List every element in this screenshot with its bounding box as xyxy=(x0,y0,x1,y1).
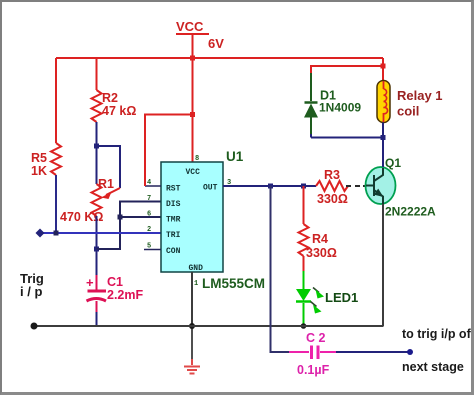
svg-text:coil: coil xyxy=(397,104,419,119)
diode D1 xyxy=(304,89,361,118)
svg-text:Q1: Q1 xyxy=(385,156,401,170)
resistor R3 xyxy=(316,168,348,206)
svg-text:R4: R4 xyxy=(312,232,328,246)
node OUT/C2 junction xyxy=(268,184,273,189)
wire R4 to LED xyxy=(303,256,305,289)
svg-text:U1: U1 xyxy=(226,149,244,164)
LED LED1 xyxy=(296,288,358,314)
transistor Q1 xyxy=(366,156,437,219)
relay coil RL1 xyxy=(377,81,443,123)
wire D1 top branch xyxy=(311,66,383,73)
wire RST to VCC xyxy=(145,115,193,187)
wire TMR branch xyxy=(120,216,161,218)
node relay/D1 top junction xyxy=(381,64,386,69)
svg-text:330Ω: 330Ω xyxy=(306,246,337,260)
svg-text:GND: GND xyxy=(189,264,204,273)
wire R2 branch upper xyxy=(96,58,98,90)
wire D1 anode lead xyxy=(310,118,312,138)
svg-text:5: 5 xyxy=(147,243,151,251)
svg-text:6V: 6V xyxy=(208,36,224,51)
wire wiper branch xyxy=(97,146,121,188)
svg-text:OUT: OUT xyxy=(203,184,218,193)
svg-text:2.2mF: 2.2mF xyxy=(107,288,143,302)
resistor R2 xyxy=(92,90,137,122)
wire relay branch top xyxy=(382,58,384,80)
label to trig i/p of next stage xyxy=(402,327,472,374)
svg-text:R2: R2 xyxy=(102,91,118,105)
svg-text:LM555CM: LM555CM xyxy=(202,276,265,291)
resistor R5 xyxy=(31,143,61,178)
svg-text:2N2222A: 2N2222A xyxy=(385,205,436,219)
svg-text:1: 1 xyxy=(194,280,198,288)
node output terminal dot xyxy=(407,349,413,355)
node TMR junction xyxy=(118,215,123,220)
pin 4 RST stub xyxy=(145,179,161,187)
capacitor C2 xyxy=(289,331,336,377)
svg-text:1N4009: 1N4009 xyxy=(319,101,361,115)
svg-text:VCC: VCC xyxy=(176,19,204,34)
svg-text:TMR: TMR xyxy=(166,216,181,225)
svg-text:+: + xyxy=(86,275,94,290)
wire node A to R1 xyxy=(96,146,98,184)
capacitor C1 xyxy=(86,275,143,302)
wire C2 branch vertical xyxy=(271,186,290,352)
svg-text:VCC: VCC xyxy=(186,168,201,177)
node RST/VCC junction xyxy=(190,112,195,117)
wire relay bottom xyxy=(382,123,384,168)
svg-text:CON: CON xyxy=(166,247,181,256)
node R5/trigger junction xyxy=(54,231,59,236)
potentiometer R1 xyxy=(60,177,114,224)
svg-text:47 kΩ: 47 kΩ xyxy=(102,104,136,118)
svg-text:R3: R3 xyxy=(324,168,340,182)
svg-text:RST: RST xyxy=(166,185,181,194)
svg-text:2: 2 xyxy=(147,226,151,234)
wire TRI trigger line xyxy=(40,232,161,234)
pin 8 number xyxy=(195,155,199,163)
node trigger input terminal xyxy=(36,229,45,238)
pin 1 number and GND stub xyxy=(192,272,198,326)
node B junction R1/C1 xyxy=(94,247,99,252)
wire R1 bottom to node B xyxy=(96,216,98,249)
svg-text:C 2: C 2 xyxy=(306,331,326,345)
VCC power symbol xyxy=(176,19,224,58)
wire R3 to base dashed xyxy=(346,185,374,187)
pin 6 number xyxy=(147,211,151,219)
wire VCC to pin8 xyxy=(192,58,194,162)
node relay/D1 bottom junction xyxy=(381,135,386,140)
svg-text:R5: R5 xyxy=(31,151,47,165)
resistor R4 xyxy=(299,224,337,260)
wire D1 cathode lead xyxy=(310,73,312,101)
wire emitter to ground rail xyxy=(382,204,384,326)
wire R5 bottom to trigger line xyxy=(55,175,57,233)
node ground rail junction xyxy=(189,323,195,329)
svg-text:to trig i/p of: to trig i/p of xyxy=(402,327,472,341)
wire OUT line xyxy=(223,185,316,187)
pin 7 number xyxy=(147,195,151,203)
svg-text:C1: C1 xyxy=(107,275,123,289)
svg-text:LED1: LED1 xyxy=(325,290,358,305)
wire D1 bottom to relay bottom xyxy=(311,137,383,139)
svg-text:TRI: TRI xyxy=(166,231,181,240)
wire left rail upper (to R5) xyxy=(55,58,57,143)
label Trig i/p xyxy=(20,271,44,299)
node VCC junction xyxy=(190,56,195,61)
wire LED to ground rail xyxy=(303,303,305,326)
wire C2 to output terminal xyxy=(336,351,408,353)
node A junction R2/R1 xyxy=(94,144,99,149)
svg-text:0.1µF: 0.1µF xyxy=(297,363,330,377)
wire DIS branch xyxy=(97,202,161,250)
svg-text:next stage: next stage xyxy=(402,360,464,374)
op-amp U1 LM555CM body xyxy=(161,149,265,291)
svg-text:7: 7 xyxy=(147,195,151,203)
node left terminal dot xyxy=(31,323,38,330)
svg-text:4: 4 xyxy=(147,179,151,187)
svg-text:Relay 1: Relay 1 xyxy=(397,88,443,103)
ground symbol xyxy=(184,326,200,374)
pin 3 number xyxy=(227,179,231,187)
wire R2 bottom to node A xyxy=(96,122,98,146)
svg-text:8: 8 xyxy=(195,155,199,163)
wire ground rail bottom xyxy=(34,325,384,327)
wire C1 bottom to ground rail xyxy=(96,301,98,326)
pin 2 number xyxy=(147,226,151,234)
node OUT/R4 junction xyxy=(301,184,306,189)
svg-text:6: 6 xyxy=(147,211,151,219)
svg-text:i / p: i / p xyxy=(20,284,42,299)
wire R4 branch upper xyxy=(303,186,305,224)
svg-text:1K: 1K xyxy=(31,164,47,178)
pin 5 CON stub xyxy=(144,243,161,251)
svg-text:R1: R1 xyxy=(98,177,114,191)
svg-text:DIS: DIS xyxy=(166,200,181,209)
node LED/ground rail junction xyxy=(301,323,307,329)
wire node B to C1 xyxy=(96,249,98,290)
svg-text:330Ω: 330Ω xyxy=(317,192,348,206)
potentiometer R1 wiper arrow xyxy=(101,188,120,199)
wire top VCC rail xyxy=(56,57,383,59)
